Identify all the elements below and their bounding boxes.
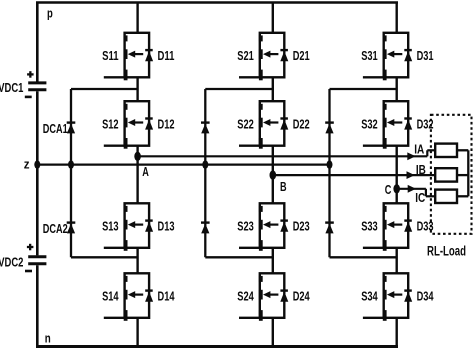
- wire: left DC bus middle segment: [36, 91, 39, 255]
- svg-text:S34: S34: [361, 289, 378, 304]
- svg-text:D21: D21: [293, 48, 310, 63]
- wire: negative DC rail n: [36, 345, 398, 348]
- node C junction dot: [393, 184, 400, 193]
- arrow IC: [408, 185, 416, 193]
- svg-text:D14: D14: [158, 289, 176, 304]
- diode clamp diode lower leg C: [325, 223, 334, 234]
- capacitor VDC1: [28, 83, 46, 90]
- wire: neutral z bus: [37, 163, 329, 165]
- resistor load phase A: [435, 144, 457, 157]
- node B junction dot: [270, 170, 277, 179]
- svg-text:DCA1: DCA1: [43, 121, 68, 136]
- transistor S33 with antiparallel diode D33: [363, 203, 412, 251]
- svg-text:VDC1: VDC1: [0, 80, 23, 95]
- svg-text:D34: D34: [417, 289, 435, 304]
- transistor S13 with antiparallel diode D13: [104, 203, 153, 251]
- wire: phase C output: [397, 189, 437, 197]
- wire: left DC bus lower segment: [36, 265, 39, 346]
- transistor S22 with antiparallel diode D22: [239, 101, 288, 149]
- svg-text:D32: D32: [417, 116, 434, 131]
- diode clamp diode lower leg B: [201, 223, 210, 234]
- wire: load right lead C: [457, 195, 468, 197]
- wire: clamp top tee leg C: [330, 88, 397, 90]
- wire: clamp column leg B: [204, 89, 206, 257]
- capacitor VDC2: [28, 257, 46, 264]
- svg-text:D12: D12: [158, 116, 175, 131]
- diode clamp diode upper leg C: [325, 123, 334, 134]
- diode clamp diode upper leg B: [201, 123, 210, 134]
- wire: clamp top tee leg B: [205, 88, 272, 90]
- VDC2 plus polarity mark: [27, 244, 34, 251]
- svg-text:DCA2: DCA2: [43, 221, 68, 236]
- wire: positive DC rail p: [36, 1, 398, 4]
- node A junction dot: [134, 152, 141, 161]
- wire: clamp bottom tee leg C: [330, 256, 397, 258]
- transistor S21 with antiparallel diode D21: [239, 33, 288, 81]
- svg-text:IC: IC: [415, 190, 425, 205]
- svg-text:D31: D31: [417, 48, 434, 63]
- svg-text:S23: S23: [237, 219, 254, 234]
- wire: phase A output: [138, 150, 437, 156]
- wire: clamp column leg A: [70, 89, 72, 257]
- wire: load right lead A: [457, 149, 468, 151]
- junction: z at DC bus: [34, 160, 40, 168]
- svg-text:D23: D23: [293, 219, 310, 234]
- transistor S32 with antiparallel diode D32: [363, 101, 412, 149]
- svg-text:A: A: [142, 164, 149, 179]
- RL-Load dashed enclosure: [431, 115, 472, 234]
- wire: clamp bottom tee leg A: [71, 256, 138, 258]
- svg-text:S11: S11: [102, 48, 119, 63]
- svg-text:S13: S13: [102, 219, 119, 234]
- wire: clamp column leg C: [328, 89, 330, 257]
- svg-text:S24: S24: [237, 289, 254, 304]
- leg C: vertical wire segments: [396, 3, 398, 347]
- leg B: vertical wire segments: [272, 3, 274, 347]
- svg-text:C: C: [385, 182, 392, 197]
- VDC2 minus polarity mark: [25, 270, 32, 273]
- leg A: vertical wire segments: [136, 3, 138, 347]
- wire: clamp top tee leg A: [71, 88, 138, 90]
- svg-text:RL-Load: RL-Load: [427, 243, 466, 258]
- arrow IB: [407, 171, 415, 179]
- svg-text:S31: S31: [361, 48, 378, 63]
- diode DCA1: [67, 123, 76, 134]
- svg-text:D11: D11: [158, 48, 175, 63]
- transistor S14 with antiparallel diode D14: [104, 273, 153, 321]
- transistor S24 with antiparallel diode D24: [239, 273, 288, 321]
- diode DCA2: [67, 223, 76, 234]
- VDC1 minus polarity mark: [25, 96, 32, 99]
- svg-text:S14: S14: [102, 289, 119, 304]
- wire: clamp bottom tee leg B: [205, 256, 272, 258]
- resistor load phase C: [435, 190, 457, 203]
- wire: phase B output: [273, 174, 436, 176]
- transistor S23 with antiparallel diode D23: [239, 203, 288, 251]
- svg-text:B: B: [280, 179, 287, 194]
- resistor load phase B: [435, 168, 457, 181]
- junction: z bus with clamp column C: [327, 160, 333, 168]
- svg-text:p: p: [47, 5, 53, 20]
- junction: z bus with clamp column B: [202, 160, 208, 168]
- svg-text:IB: IB: [416, 162, 426, 177]
- svg-text:VDC2: VDC2: [0, 255, 23, 270]
- transistor S12 with antiparallel diode D12: [104, 101, 153, 149]
- wire: left DC bus upper segment: [36, 3, 39, 82]
- VDC1 plus polarity mark: [27, 71, 33, 78]
- svg-text:S22: S22: [237, 116, 254, 131]
- transistor S34 with antiparallel diode D34: [363, 273, 412, 321]
- svg-text:S21: S21: [237, 48, 254, 63]
- svg-text:S33: S33: [361, 219, 378, 234]
- svg-text:S32: S32: [361, 116, 378, 131]
- wire: load common bus: [467, 150, 469, 196]
- junction: z bus with clamp column A: [68, 160, 74, 168]
- svg-text:D22: D22: [293, 116, 310, 131]
- svg-text:S12: S12: [102, 116, 119, 131]
- svg-text:D24: D24: [293, 289, 311, 304]
- transistor S11 with antiparallel diode D11: [104, 33, 153, 81]
- svg-text:D13: D13: [158, 219, 175, 234]
- svg-text:IA: IA: [414, 141, 424, 156]
- wire: load right lead B: [457, 174, 468, 176]
- transistor S31 with antiparallel diode D31: [363, 33, 412, 81]
- arrow IA: [407, 152, 415, 160]
- svg-text:n: n: [45, 331, 51, 346]
- svg-text:z: z: [24, 157, 30, 172]
